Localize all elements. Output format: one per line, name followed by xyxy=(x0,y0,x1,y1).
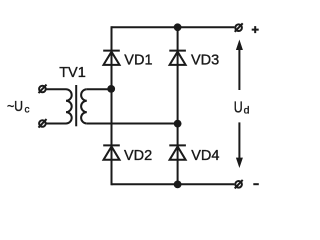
node top rail / VD3 xyxy=(174,23,182,31)
wire primary top xyxy=(46,88,66,90)
input terminal top xyxy=(39,85,47,94)
output terminal plus xyxy=(235,23,243,32)
diode VD3 xyxy=(169,51,186,65)
transformer TV1 secondary winding xyxy=(81,89,87,123)
label ~Uc xyxy=(7,98,30,115)
svg-text:d: d xyxy=(244,105,250,117)
svg-text:TV1: TV1 xyxy=(59,65,86,81)
diode VD4 xyxy=(169,145,186,159)
svg-text:U: U xyxy=(234,98,243,116)
node bottom rail / VD4 xyxy=(174,181,182,189)
Ud arrow up xyxy=(236,40,243,91)
label plus xyxy=(252,26,259,33)
wire secondary top xyxy=(87,88,111,90)
svg-text:VD3: VD3 xyxy=(191,53,219,69)
wire secondary bottom xyxy=(87,123,178,125)
diode VD1 xyxy=(103,51,120,65)
svg-text:VD4: VD4 xyxy=(191,148,219,164)
svg-text:VD1: VD1 xyxy=(124,53,152,69)
transformer TV1 primary winding xyxy=(66,89,72,123)
wire primary bottom xyxy=(46,123,66,125)
label Ud xyxy=(234,98,250,116)
diode VD2 xyxy=(103,145,120,159)
output terminal minus xyxy=(235,180,243,189)
transformer TV1 core xyxy=(75,85,77,126)
label minus xyxy=(253,183,258,185)
svg-text:VD2: VD2 xyxy=(124,148,152,164)
Ud arrow down xyxy=(236,122,243,168)
input terminal bottom xyxy=(39,119,47,128)
wire left branch xyxy=(111,26,113,185)
svg-text:c: c xyxy=(25,104,30,115)
node secondary top / left branch xyxy=(107,85,115,93)
svg-text:~U: ~U xyxy=(7,98,23,114)
node secondary bottom / right branch xyxy=(174,120,182,128)
wire bottom rail xyxy=(112,183,235,185)
wire top rail xyxy=(112,26,235,28)
wire right branch xyxy=(177,27,179,184)
